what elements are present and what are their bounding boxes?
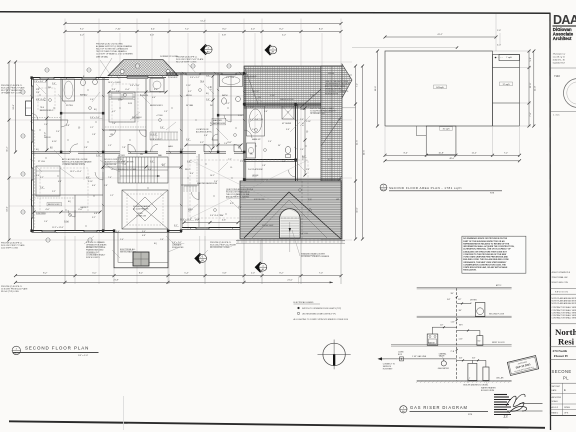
svg-text:+ POLE: + POLE — [156, 115, 163, 117]
svg-text:5'-2": 5'-2" — [282, 34, 286, 36]
svg-text:5'-4": 5'-4" — [184, 273, 188, 275]
corridor wall — [32, 152, 245, 154]
title block firm name — [553, 27, 574, 41]
svg-text:8'-0": 8'-0" — [210, 122, 212, 126]
svg-text:7'-0": 7'-0" — [319, 273, 323, 275]
svg-text:SWITCH TO OPERATE ROOM LIGHTS: SWITCH TO OPERATE ROOM LIGHTS (TYP) — [302, 307, 342, 310]
gas riser attic line — [417, 284, 512, 289]
long extension to area plan — [352, 46, 458, 48]
plan bottom overall dimension line — [14, 279, 333, 284]
svg-text:3'-8": 3'-8" — [222, 34, 226, 36]
svg-text:DRYER: DRYER — [470, 300, 477, 302]
door bedroom3 — [151, 144, 159, 152]
svg-text:NTS: NTS — [381, 189, 386, 191]
door master bath2 — [289, 170, 296, 177]
svg-text:11'-2": 11'-2" — [472, 152, 477, 154]
partition x181 — [181, 73, 183, 231]
area plan top dimension — [384, 14, 498, 51]
svg-text:1/4" = 1'-0": 1/4" = 1'-0" — [78, 355, 88, 357]
closet partition y130 — [103, 127, 146, 130]
area plan right dims — [528, 50, 532, 128]
svg-text:7'-0": 7'-0" — [108, 177, 112, 179]
door hall4 — [204, 144, 212, 152]
exterior wall bottom B — [168, 231, 182, 233]
svg-text:BEDROOM 4: BEDROOM 4 — [40, 110, 53, 112]
area plan title — [380, 184, 502, 195]
exterior wall left — [32, 78, 35, 232]
door bedroom2 — [95, 172, 103, 180]
partition x146 — [145, 78, 147, 152]
svg-text:1'-3": 1'-3" — [108, 145, 112, 147]
svg-text:6'-4": 6'-4" — [151, 29, 155, 31]
exterior wall top A — [32, 78, 110, 80]
second floor plan title — [12, 346, 98, 357]
svg-text:2'-0": 2'-0" — [251, 273, 255, 275]
eave lines below bottom roof — [236, 239, 345, 243]
room label bedroom2 — [47, 203, 62, 207]
svg-text:W.I.C.: W.I.C. — [185, 169, 191, 171]
svg-text:CL: CL — [230, 167, 232, 169]
scattered annotation texts — [34, 56, 350, 259]
svg-text:HALL: HALL — [168, 145, 174, 148]
svg-text:7140: 7140 — [554, 74, 560, 78]
svg-text:CONTRACTOR SHALL VERIFY: CONTRACTOR SHALL VERIFY — [552, 309, 576, 312]
area plan main outline — [385, 51, 493, 126]
master bath east wall — [296, 104, 298, 181]
svg-text:W 26 CRC PROP 2"x12" PLATE: W 26 CRC PROP 2"x12" PLATE — [176, 58, 204, 61]
svg-text:5'-0" TUB: 5'-0" TUB — [226, 77, 235, 79]
svg-text:9'-0" CLG TRAY: 9'-0" CLG TRAY — [210, 214, 224, 217]
svg-text:3'-0" x 5'-2": 3'-0" x 5'-2" — [190, 77, 200, 79]
svg-text:1.25": 1.25" — [451, 322, 456, 324]
svg-text:3/4": 3/4" — [447, 299, 451, 301]
svg-text:2'-0": 2'-0" — [268, 141, 272, 143]
svg-text:11'-6": 11'-6" — [530, 82, 532, 87]
title block project number — [550, 68, 576, 78]
svg-text:2'-8": 2'-8" — [264, 111, 268, 113]
svg-text:NOTE PLANS ARE AN INSTRU: NOTE PLANS ARE AN INSTRU — [552, 299, 576, 302]
plan right dimension line outer — [361, 65, 365, 241]
svg-text:1'-2": 1'-2" — [110, 195, 114, 197]
note above plan mid — [176, 57, 204, 64]
interior dim top bath — [210, 75, 214, 150]
svg-text:6'-0": 6'-0" — [150, 34, 154, 36]
gas main riser pipe — [456, 288, 458, 381]
svg-text:CELLAR: CELLAR — [496, 376, 504, 379]
roof hatch right gable tail — [342, 64, 352, 98]
svg-text:FIXED/LITES: FIXED/LITES — [172, 247, 184, 249]
svg-text:1'-6": 1'-6" — [44, 124, 48, 126]
svg-text:GAS METER: GAS METER — [438, 367, 450, 370]
svg-text:BATHROOM: BATHROOM — [213, 122, 225, 125]
svg-text:(516) 671 - 36: (516) 671 - 36 — [553, 60, 565, 62]
svg-text:3'-0" x 5'-0": 3'-0" x 5'-0" — [130, 85, 140, 87]
svg-text:10'-0" x 2 HDR: 10'-0" x 2 HDR — [108, 82, 121, 84]
svg-text:2'-10": 2'-10" — [186, 85, 191, 87]
svg-text:+ FINISH CEILING JOISTS: + FINISH CEILING JOISTS — [62, 164, 86, 166]
svg-text:A BUILDING OR STRUCTURE THEY D: A BUILDING OR STRUCTURE THEY DOES NOT — [463, 250, 507, 253]
door linen — [212, 134, 218, 140]
svg-text:1'-10": 1'-10" — [270, 95, 275, 97]
door bedroom4 — [70, 144, 78, 152]
area plan bottom dims — [384, 152, 522, 157]
window tag circles — [21, 64, 231, 242]
svg-text:7/26/07 FINAL LAY: 7/26/07 FINAL LAY — [552, 276, 569, 279]
svg-text:4/14/07 UPDATE PLN: 4/14/07 UPDATE PLN — [552, 271, 571, 274]
svg-text:11'-0": 11'-0" — [356, 207, 358, 212]
svg-text:GAS RISER DIAGRAM: GAS RISER DIAGRAM — [410, 405, 468, 410]
svg-text:SEE ELEVATIONS: SEE ELEVATIONS — [120, 251, 137, 254]
svg-text:IN BEDROOM: IN BEDROOM — [104, 164, 117, 166]
plan left inner dimension line — [13, 61, 17, 154]
svg-text:4'-2": 4'-2" — [161, 164, 165, 166]
bath2 fixtures — [63, 79, 98, 101]
note above plan left — [96, 44, 133, 59]
area plan small top dims — [496, 30, 503, 58]
svg-text:7'-2": 7'-2" — [356, 83, 358, 87]
closet partition y120 left — [32, 118, 62, 121]
left margin notes — [1, 85, 25, 94]
svg-text:3/4": 3/4" — [459, 358, 463, 360]
gas riser second floor line — [417, 313, 512, 317]
svg-text:Resi: Resi — [558, 336, 575, 346]
door bathtc — [224, 115, 231, 122]
svg-text:DORMER 12 SLOPE: DORMER 12 SLOPE — [160, 56, 179, 58]
svg-text:OF RIDGE POLE: OF RIDGE POLE — [310, 113, 325, 115]
svg-text:2'x6' PLATFORM: 2'x6' PLATFORM — [248, 168, 263, 171]
closet comb master wic — [184, 186, 197, 192]
sheet top border — [0, 12, 550, 13]
svg-text:42" SHWR: 42" SHWR — [282, 123, 292, 125]
wic partition — [181, 154, 199, 228]
svg-text:3'-8": 3'-8" — [204, 135, 208, 137]
svg-text:Flower H: Flower H — [554, 354, 568, 358]
svg-text:5'-8": 5'-8" — [222, 273, 226, 275]
svg-text:6'-0": 6'-0" — [302, 155, 304, 159]
window dormer — [127, 76, 148, 79]
riser size labels — [451, 293, 464, 353]
svg-text:2'-4": 2'-4" — [214, 181, 218, 183]
svg-text:1'-0": 1'-0" — [44, 221, 48, 223]
exterior wall bottom A — [32, 231, 115, 233]
svg-text:3'-8": 3'-8" — [66, 125, 70, 127]
svg-text:AL BEAM SUPPORT @ RIDGE FRAMIN: AL BEAM SUPPORT @ RIDGE FRAMING — [96, 45, 132, 48]
svg-text:3'-6": 3'-6" — [148, 169, 152, 171]
micro marks — [30, 72, 306, 233]
svg-text:8'-2": 8'-2" — [43, 273, 47, 275]
svg-text:4'-0": 4'-0" — [210, 86, 212, 90]
svg-text:7'-10": 7'-10" — [115, 29, 121, 31]
bath top-center fixtures — [220, 75, 243, 105]
svg-text:BEDROOM 2: BEDROOM 2 — [48, 204, 61, 206]
title block address — [553, 53, 565, 65]
svg-text:BOILER DRUM: BOILER DRUM — [481, 390, 495, 392]
title block left border — [549, 13, 552, 430]
svg-text:DRWG: DRWG — [564, 407, 570, 409]
gas riser title — [400, 405, 488, 416]
sheet name — [552, 369, 572, 381]
arched attic louver — [280, 181, 303, 252]
room label master bathroom — [212, 118, 226, 125]
svg-text:(2) 2x10 HEADER: (2) 2x10 HEADER — [133, 208, 149, 211]
svg-text:ELECTRICAL LEGEND: ELECTRICAL LEGEND — [294, 301, 315, 304]
svg-text:Architect: Architect — [553, 36, 572, 41]
interior dim bedroom3 — [108, 89, 168, 94]
svg-text:6'-2": 6'-2" — [44, 97, 46, 101]
svg-text:7'-8": 7'-8" — [122, 147, 126, 149]
project title Northport Residence — [555, 327, 576, 346]
gas riser cellar line — [416, 376, 512, 383]
windows left wall — [31, 86, 34, 218]
bed bedroom3 — [109, 92, 135, 122]
area labels — [434, 56, 513, 130]
svg-text:2'-8": 2'-8" — [84, 147, 88, 149]
left margin note lower — [1, 286, 28, 293]
svg-text:EA BRACKETS: EA BRACKETS — [325, 93, 339, 96]
svg-text:1/2": 1/2" — [440, 324, 444, 326]
svg-text:1/2": 1/2" — [458, 299, 462, 301]
svg-text:MASTER: MASTER — [213, 119, 222, 122]
svg-text:4'-4": 4'-4" — [152, 97, 156, 99]
svg-text:7'-6": 7'-6" — [530, 112, 532, 116]
top dimension extension lines — [9, 19, 352, 285]
svg-text:2'-4": 2'-4" — [300, 119, 304, 121]
fold line — [123, 396, 125, 430]
svg-text:7 sq/ft: 7 sq/ft — [506, 56, 512, 59]
svg-text:5'-0": 5'-0" — [497, 45, 501, 47]
svg-text:1'-6": 1'-6" — [300, 149, 304, 151]
svg-text:3/4": 3/4" — [472, 358, 476, 360]
title block notes paragraphs — [552, 297, 576, 320]
svg-text:PAGE 2: PAGE 2 — [552, 412, 559, 415]
svg-text:sea cliff, ny 11: sea cliff, ny 11 — [553, 57, 565, 59]
svg-text:DN 2'-8": DN 2'-8" — [252, 91, 259, 93]
svg-text:1'-0" O.H.: 1'-0" O.H. — [300, 233, 309, 235]
interior dim master vert — [302, 107, 306, 177]
wall x244 — [244, 73, 246, 181]
door master — [234, 144, 242, 152]
area plan left dim — [375, 50, 379, 128]
bottom extension lines — [65, 236, 341, 284]
svg-text:INFORMATION SHALL ACQUIRE THE: INFORMATION SHALL ACQUIRE THE CONSTRUCTI… — [463, 245, 514, 248]
svg-text:13'-0": 13'-0" — [6, 206, 8, 212]
svg-text:31'-0": 31'-0" — [13, 104, 15, 110]
stair treads — [118, 157, 168, 183]
svg-text:CONTRACTOR SHALL VERIFY: CONTRACTOR SHALL VERIFY — [552, 306, 576, 309]
svg-text:2x12 STIFF / LONG: 2x12 STIFF / LONG — [1, 247, 18, 249]
svg-text:CONTRACTOR SHALL VERIFY: CONTRACTOR SHALL VERIFY — [552, 314, 576, 317]
svg-text:1'-8": 1'-8" — [262, 165, 266, 167]
svg-text:LINEN: LINEN — [300, 109, 306, 111]
svg-text:REPRESENTATIVE RELATED TO REVI: REPRESENTATIVE RELATED TO REVIEW OF THE — [463, 242, 510, 245]
svg-text:3'-0": 3'-0" — [142, 231, 146, 233]
svg-text:TO BELOW: TO BELOW — [136, 216, 146, 218]
svg-text:21'-0": 21'-0" — [287, 279, 293, 281]
door master bath — [244, 130, 252, 138]
svg-text:30'-6": 30'-6" — [375, 86, 377, 92]
wall y181 top of bottom roof — [244, 179, 341, 181]
windows top wall — [40, 73, 236, 81]
svg-text:(SEE DETAIL): (SEE DETAIL) — [96, 55, 108, 58]
architect seal — [564, 79, 576, 108]
svg-text:13: 13 — [503, 414, 508, 419]
svg-text:4'-6": 4'-6" — [45, 209, 49, 211]
door closet b3b — [140, 130, 147, 137]
svg-text:LIN.: LIN. — [110, 134, 114, 136]
label open to below — [133, 205, 151, 218]
svg-text:ATTIC: ATTIC — [496, 284, 502, 287]
svg-text:YORK STATE UNIFORM FIRE PREVEN: YORK STATE UNIFORM FIRE PREVENTION AND — [463, 256, 508, 259]
chimney at left wall — [26, 101, 32, 116]
svg-text:1'-4": 1'-4" — [252, 129, 256, 131]
svg-text:2'-2": 2'-2" — [52, 191, 56, 193]
area plan bottom bump — [416, 126, 456, 155]
svg-text:2'-6": 2'-6" — [122, 161, 126, 163]
svg-text:5'-6": 5'-6" — [36, 175, 40, 177]
svg-text:6/12 SLOPE: 6/12 SLOPE — [254, 199, 265, 201]
signature block scribble — [494, 394, 543, 419]
partition x61 — [60, 78, 62, 152]
svg-text:5'-4": 5'-4" — [122, 164, 126, 166]
hall-master wall x244 lower — [243, 152, 245, 179]
title block data grid — [550, 383, 576, 415]
svg-text:ACCESS @ ATTIC: ACCESS @ ATTIC — [196, 131, 213, 134]
svg-text:ALTERATION, REMOVAL, USE OR OC: ALTERATION, REMOVAL, USE OR OCCUPANCY OF — [463, 248, 511, 251]
stair dormer bump — [114, 232, 168, 267]
svg-text:7'-2": 7'-2" — [504, 152, 508, 154]
svg-text:39 prospect av: 39 prospect av — [553, 53, 565, 56]
interior dim hall2 — [185, 142, 243, 147]
svg-text:3'-4": 3'-4" — [154, 89, 158, 91]
svg-text:3/4": 3/4" — [459, 310, 463, 312]
svg-text:10'-8": 10'-8" — [438, 152, 444, 154]
plan top overall dimension line — [64, 20, 343, 25]
svg-text:BEDROOM 3: BEDROOM 3 — [150, 105, 163, 107]
svg-text:NTS: NTS — [490, 193, 495, 195]
svg-text:5'-0": 5'-0" — [44, 132, 46, 136]
svg-text:PL: PL — [563, 376, 569, 381]
plan top segment dimension line — [64, 29, 343, 34]
svg-text:30": 30" — [278, 145, 281, 147]
svg-text:NOTE PLANS ARE AN INSTRU: NOTE PLANS ARE AN INSTRU — [552, 297, 576, 300]
title block DAA logo — [553, 13, 576, 27]
svg-text:4'-8": 4'-8" — [58, 181, 62, 183]
svg-text:RD 2X8 STIFF / LONG: RD 2X8 STIFF / LONG — [210, 247, 230, 249]
partition x103 — [103, 78, 105, 231]
svg-text:RD 2x8 (TYP) LONG: RD 2x8 (TYP) LONG — [1, 291, 19, 293]
leader lines — [36, 60, 310, 258]
svg-text:R E V I S I O N: R E V I S I O N — [555, 291, 568, 293]
door closet left — [32, 114, 39, 121]
svg-text:DATE: DATE — [552, 389, 558, 392]
svg-text:DAA/: DAA/ — [553, 13, 576, 27]
dormer roof top-center — [108, 60, 178, 76]
svg-text:STATE EDUCATION LAW, OR ANY AP: STATE EDUCATION LAW, OR ANY APPLICABLE — [463, 266, 508, 269]
svg-text:9'-2": 9'-2" — [80, 29, 84, 31]
svg-text:9'-2": 9'-2" — [40, 177, 44, 179]
svg-text:RIDGE VENT: RIDGE VENT — [262, 225, 274, 227]
svg-text:4'-2": 4'-2" — [112, 111, 116, 113]
svg-text:2'-10": 2'-10" — [306, 121, 311, 123]
svg-text:8'-0": 8'-0" — [404, 152, 408, 154]
gable triangle outline — [244, 192, 341, 239]
svg-text:BATH: BATH — [222, 94, 228, 97]
svg-text:10'-2": 10'-2" — [210, 175, 215, 177]
svg-text:RD 2"x8" STIFF / LONG: RD 2"x8" STIFF / LONG — [176, 62, 197, 64]
svg-text:1'-6": 1'-6" — [160, 239, 164, 241]
svg-text:6'-10": 6'-10" — [52, 141, 57, 143]
closet comb hall — [150, 132, 178, 140]
svg-text:30'-6": 30'-6" — [363, 150, 365, 156]
area plan right rooms — [493, 55, 520, 127]
svg-text:3'-2": 3'-2" — [92, 217, 96, 219]
svg-text:1 1/4" GAS LINE: 1 1/4" GAS LINE — [412, 355, 427, 358]
svg-text:7'-4": 7'-4" — [112, 123, 116, 125]
svg-text:6'-4": 6'-4" — [125, 89, 129, 91]
svg-text:PART OF THE BUILDING INSPECTOR: PART OF THE BUILDING INSPECTOR OR AN — [463, 240, 505, 243]
svg-text:LED RECESSED DOME LIGHTS (TYP): LED RECESSED DOME LIGHTS (TYP) — [302, 313, 336, 315]
door bath2 — [61, 120, 68, 127]
svg-text:4'-8": 4'-8" — [94, 213, 98, 215]
door wic — [192, 192, 200, 200]
svg-text:* WOOD RAILING @ 3'-0" AFF: * WOOD RAILING @ 3'-0" AFF — [110, 168, 137, 171]
svg-text:8'-0": 8'-0" — [222, 29, 226, 31]
svg-text:4'-0": 4'-0" — [190, 173, 194, 175]
svg-text:R3 TILE: R3 TILE — [66, 105, 74, 107]
svg-text:MECH: MECH — [186, 95, 192, 97]
svg-text:8'-2": 8'-2" — [279, 273, 283, 275]
door bath hall — [128, 144, 136, 152]
svg-text:BOILER (INDIRECT) DRUM: BOILER (INDIRECT) DRUM — [463, 384, 487, 386]
svg-text:6'-8": 6'-8" — [142, 235, 146, 237]
plan left dimension line — [6, 61, 10, 242]
svg-text:OF 8: OF 8 — [564, 413, 568, 415]
svg-text:1'-2": 1'-2" — [90, 127, 94, 129]
svg-text:MAKE UP: MAKE UP — [252, 138, 261, 141]
svg-text:5'-0": 5'-0" — [530, 57, 532, 61]
svg-text:8'-0": 8'-0" — [319, 29, 323, 31]
svg-text:48'-0": 48'-0" — [449, 158, 455, 160]
code compliance note box — [462, 236, 526, 273]
master bath toilet — [285, 146, 290, 157]
svg-text:TIE TOP PLATE TOP ALL BEAMS &: TIE TOP PLATE TOP ALL BEAMS & — [96, 50, 127, 53]
svg-text:1'-8": 1'-8" — [92, 134, 96, 136]
svg-text:5'-6": 5'-6" — [282, 161, 286, 163]
svg-text:ROOFING TYPE ALL DORMERS: ROOFING TYPE ALL DORMERS — [301, 255, 330, 258]
svg-text:SHT/2007: SHT/2007 — [552, 386, 561, 388]
svg-text:1 . men: 1 . men — [553, 115, 559, 117]
svg-text:1'-6": 1'-6" — [497, 30, 501, 32]
title block revision rows — [552, 271, 571, 284]
corner posts — [30, 72, 296, 232]
partition x218 — [217, 73, 219, 152]
svg-text:3'-2": 3'-2" — [188, 91, 192, 93]
svg-text:3'-6": 3'-6" — [286, 129, 290, 131]
svg-text:6'-0": 6'-0" — [92, 273, 96, 275]
svg-text:2'-4": 2'-4" — [56, 131, 60, 133]
svg-text:11'-8" x 12'-2": 11'-8" x 12'-2" — [150, 139, 162, 141]
dryer second floor — [447, 299, 485, 317]
leader to note — [100, 58, 112, 77]
approval stamp — [507, 356, 538, 376]
door closet b3 — [109, 130, 116, 137]
sheet bottom border — [9, 421, 545, 428]
svg-text:SECOND FLOOR PLAN: SECOND FLOOR PLAN — [25, 346, 89, 351]
svg-text:274 North: 274 North — [553, 349, 568, 353]
north arrow — [318, 340, 351, 370]
area plan extension lines — [385, 51, 531, 157]
electrical legend — [294, 301, 348, 321]
